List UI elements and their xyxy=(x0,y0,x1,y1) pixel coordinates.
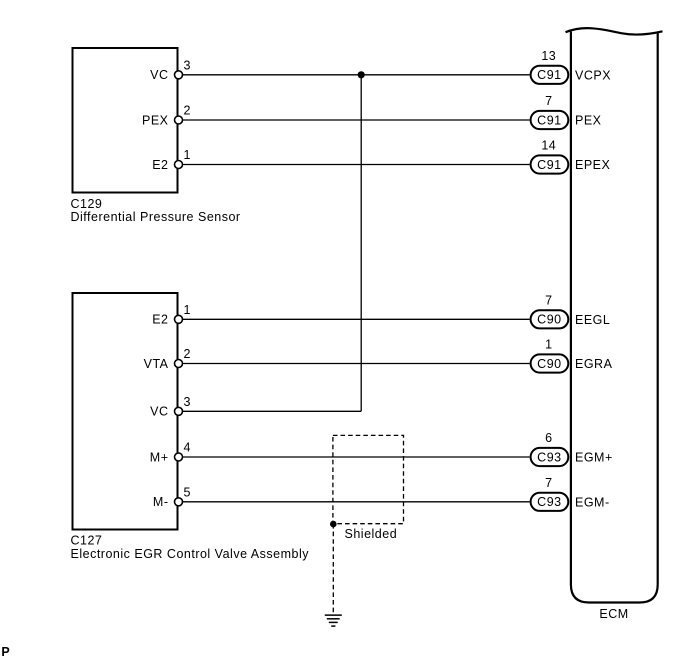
connector box C127 (Electronic EGR Control Valve Assembly) xyxy=(73,293,178,530)
ECM connector C93 pin 6 (EGM+) xyxy=(531,431,613,466)
svg-text:2: 2 xyxy=(184,104,191,118)
svg-text:C93: C93 xyxy=(537,450,561,464)
svg-text:M-: M- xyxy=(153,495,169,509)
svg-text:EPEX: EPEX xyxy=(575,158,611,172)
wire VC (C127 pin 3) horizontal segment xyxy=(183,410,361,412)
ECM connector C93 pin 7 (EGM-) xyxy=(531,476,610,511)
svg-text:C91: C91 xyxy=(537,68,561,82)
svg-text:VCPX: VCPX xyxy=(575,68,611,82)
ECM connector C91 pin 14 (EPEX) xyxy=(531,139,611,174)
wire PEX (C129 pin 2) to ECM C91-7 xyxy=(183,119,530,121)
ECM outline right edge xyxy=(657,33,659,585)
wire M- (C127 pin 5) to ECM C93-7 xyxy=(183,501,530,503)
svg-text:1: 1 xyxy=(545,338,552,352)
pin C129-1 (E2) xyxy=(175,161,183,169)
junction node on VC wire xyxy=(358,71,365,78)
ECM connector C91 pin 7 (PEX) xyxy=(531,94,602,129)
svg-text:Electronic EGR Control Valve A: Electronic EGR Control Valve Assembly xyxy=(71,547,310,561)
svg-text:VTA: VTA xyxy=(144,357,169,371)
wire M+ (C127 pin 4) to ECM C93-6 xyxy=(183,456,530,458)
svg-text:2: 2 xyxy=(184,347,191,361)
svg-text:C127: C127 xyxy=(71,534,103,548)
svg-text:VC: VC xyxy=(150,68,168,82)
svg-text:Shielded: Shielded xyxy=(345,527,398,541)
pin C127-2 (VTA) xyxy=(175,360,183,368)
connector box C129 (Differential Pressure Sensor) xyxy=(73,48,178,193)
svg-text:14: 14 xyxy=(541,139,556,153)
svg-text:6: 6 xyxy=(545,431,552,445)
svg-text:E2: E2 xyxy=(152,158,168,172)
svg-text:C91: C91 xyxy=(537,158,561,172)
pin C129-3 (VC) xyxy=(175,71,183,79)
svg-text:C90: C90 xyxy=(537,357,561,371)
shield drain node (junction dot) xyxy=(330,521,337,528)
pin C127-4 (M+) xyxy=(175,453,183,461)
svg-text:ECM: ECM xyxy=(599,607,628,621)
wire VC vertical segment joining C129 VC wire xyxy=(360,75,362,412)
svg-text:1: 1 xyxy=(184,148,191,162)
pin C127-5 (M-) xyxy=(175,498,183,506)
shield box (dashed) around M+/M- wires xyxy=(333,435,404,523)
svg-text:C129: C129 xyxy=(71,197,103,211)
svg-text:P: P xyxy=(1,645,10,659)
svg-text:C93: C93 xyxy=(537,495,561,509)
svg-text:4: 4 xyxy=(184,441,191,455)
svg-text:C90: C90 xyxy=(537,313,561,327)
wire VC (C129 pin 3) to ECM C91-13 xyxy=(183,74,530,76)
svg-text:VC: VC xyxy=(150,405,168,419)
svg-text:EGM-: EGM- xyxy=(575,495,610,509)
svg-text:EEGL: EEGL xyxy=(575,313,610,327)
ECM connector C90 pin 7 (EEGL) xyxy=(531,294,611,329)
svg-text:7: 7 xyxy=(545,94,552,108)
wire E2 (C127 pin 1) to ECM C90-7 xyxy=(183,318,530,320)
svg-text:PEX: PEX xyxy=(142,113,169,127)
svg-text:5: 5 xyxy=(184,485,191,499)
pin C129-2 (PEX) xyxy=(175,116,183,124)
svg-text:PEX: PEX xyxy=(575,114,602,128)
svg-text:13: 13 xyxy=(541,49,556,63)
ECM outline left edge xyxy=(570,32,572,585)
svg-text:C91: C91 xyxy=(537,113,561,127)
shield drain wire (dashed) to ground xyxy=(332,524,334,613)
ECM connector C90 pin 1 (EGRA) xyxy=(531,338,613,373)
ECM outline wavy top (break line) xyxy=(566,28,663,34)
ECM connector C91 pin 13 (VCPX) xyxy=(531,49,612,84)
svg-text:3: 3 xyxy=(184,58,191,72)
svg-text:EGM+: EGM+ xyxy=(575,451,613,465)
svg-text:M+: M+ xyxy=(150,450,169,464)
svg-text:E2: E2 xyxy=(152,313,168,327)
wire E2 (C129 pin 1) to ECM C91-14 xyxy=(183,164,530,166)
svg-text:Differential Pressure Sensor: Differential Pressure Sensor xyxy=(71,210,241,224)
svg-text:7: 7 xyxy=(545,294,552,308)
pin C127-3 (VC) xyxy=(175,407,183,415)
svg-text:3: 3 xyxy=(184,395,191,409)
ground symbol xyxy=(325,615,342,626)
pin C127-1 (E2) xyxy=(175,315,183,323)
svg-text:7: 7 xyxy=(545,476,552,490)
wire VTA (C127 pin 2) to ECM C90-1 xyxy=(183,363,530,365)
svg-text:1: 1 xyxy=(184,303,191,317)
ECM outline bottom rounded edge xyxy=(571,585,658,603)
svg-text:EGRA: EGRA xyxy=(575,357,613,371)
